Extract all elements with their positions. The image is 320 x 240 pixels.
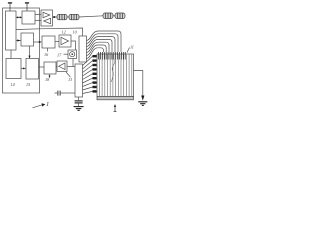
oscillator circle [70,52,75,57]
fan2 wire 6 [83,78,93,83]
inductor L1a [57,14,67,19]
IDT dense band [99,52,126,60]
oscillator dot [71,53,73,55]
node dot c [23,68,25,70]
fan2 wire 4 [83,69,93,76]
antenna terminal T1 [8,3,12,11]
fan2 wire 8 [83,87,93,90]
amp A1 triangle [61,37,69,44]
svg-text:11: 11 [130,45,134,50]
fan2 wire 3 [83,65,93,73]
inductor L2b [115,13,125,19]
comb electrodes [99,55,131,97]
pad 9 [93,90,97,92]
SAW device block 11 [97,54,134,97]
block 6 (bottom right) [26,59,39,80]
arrow under mixer [49,76,51,78]
block 3 (top right) [22,11,35,24]
device base bar [97,97,134,100]
fan1 wire 2 [87,34,119,52]
fan2 wire 5 [83,74,93,80]
fan2 wire 2 [83,61,93,69]
amp A2 triangle [59,63,65,70]
pad 3 [93,64,97,66]
pad 6 [93,77,97,79]
fan1 wire 4 [87,39,113,52]
pad 5 [93,73,97,75]
node dot output [53,16,55,18]
stub to ground [78,103,80,106]
amp A1 box [59,35,71,47]
driver rect2 [75,64,83,97]
wire B-U2 upper [35,14,41,16]
block 2 (tall left) [6,11,17,50]
capacitor C2 [75,101,83,103]
input arrow marker below device [114,106,117,112]
mixer block 18 [44,62,56,74]
fan1 wire 1 [87,31,122,52]
inductor L2a [103,13,113,19]
wire L1a-L1b [67,16,69,18]
stub A to block5 [10,50,12,59]
wire mixer to amp A2 [56,66,57,68]
stub filter down [47,48,49,52]
wire D-E [21,68,26,70]
pad 4 [93,68,97,70]
svg-text:15: 15 [26,82,30,87]
svg-text:13: 13 [68,77,72,82]
fan1 wire 5 [87,42,110,52]
filter block 16 [42,36,55,48]
stub rect2 bottom [78,97,80,100]
block 4 (mid) [21,33,34,46]
fan2 wire 7 [83,83,93,87]
capacitor C1 [55,91,76,96]
driver rect1 [79,36,87,62]
wire block6 to mixer [39,66,45,68]
pad 1 [93,55,97,57]
inductor L1b [69,14,79,19]
long wire to L2 [79,16,103,17]
stub block4 to block6 [29,46,31,59]
pointer arrow for 1 [33,105,44,108]
antenna terminal T2 [25,3,29,11]
pad 7 [93,81,97,83]
fan1 wire 7 [87,48,104,59]
wire A-C [16,40,21,42]
arrow into filter [39,41,42,43]
wire U2 to L1 [53,16,58,18]
fan1 wire 6 [87,45,107,56]
wire long to driver rect1 [16,28,83,36]
fan2 wire 1 [83,56,93,65]
wire L2a-L2b [113,15,115,17]
wire A1 to oscillator [71,41,76,50]
pad 8 [93,86,97,88]
amp triangle up [43,12,50,17]
duplexer U2 box [41,10,53,26]
ground G1 [74,107,84,111]
wire C to filter [34,41,40,43]
stub osc down [72,59,74,67]
wire B-U2 lower [35,20,41,22]
arrow into block 6 [28,56,30,59]
node dot a [17,17,19,19]
earth arrowhead [141,96,144,101]
leader for label 13 [66,72,71,77]
leader label 11 [127,48,130,53]
pad 2 [93,59,97,61]
oscillator box [68,50,77,59]
wire A2 to driver rect2 [67,66,75,68]
node dot b [20,17,22,19]
outer unit box 1 [3,8,40,93]
earth bars [138,102,147,106]
fan1 wire 3 [87,37,116,52]
wire osc left [64,53,69,55]
wire block to earth [134,71,143,97]
block 5 (bottom left) [6,59,21,79]
svg-text:14: 14 [11,82,15,87]
stub mixer down [49,74,51,78]
svg-text:12: 12 [62,30,66,35]
fan2 wire 9 [83,91,93,93]
amp A2 box [57,61,67,72]
wire A-B [16,17,22,19]
arrow into block 4 [17,39,20,41]
squiggle leader 12 [112,60,116,83]
wire filter to amp A1 [55,41,59,43]
amp triangle down [44,18,51,23]
svg-text:1: 1 [46,101,49,108]
